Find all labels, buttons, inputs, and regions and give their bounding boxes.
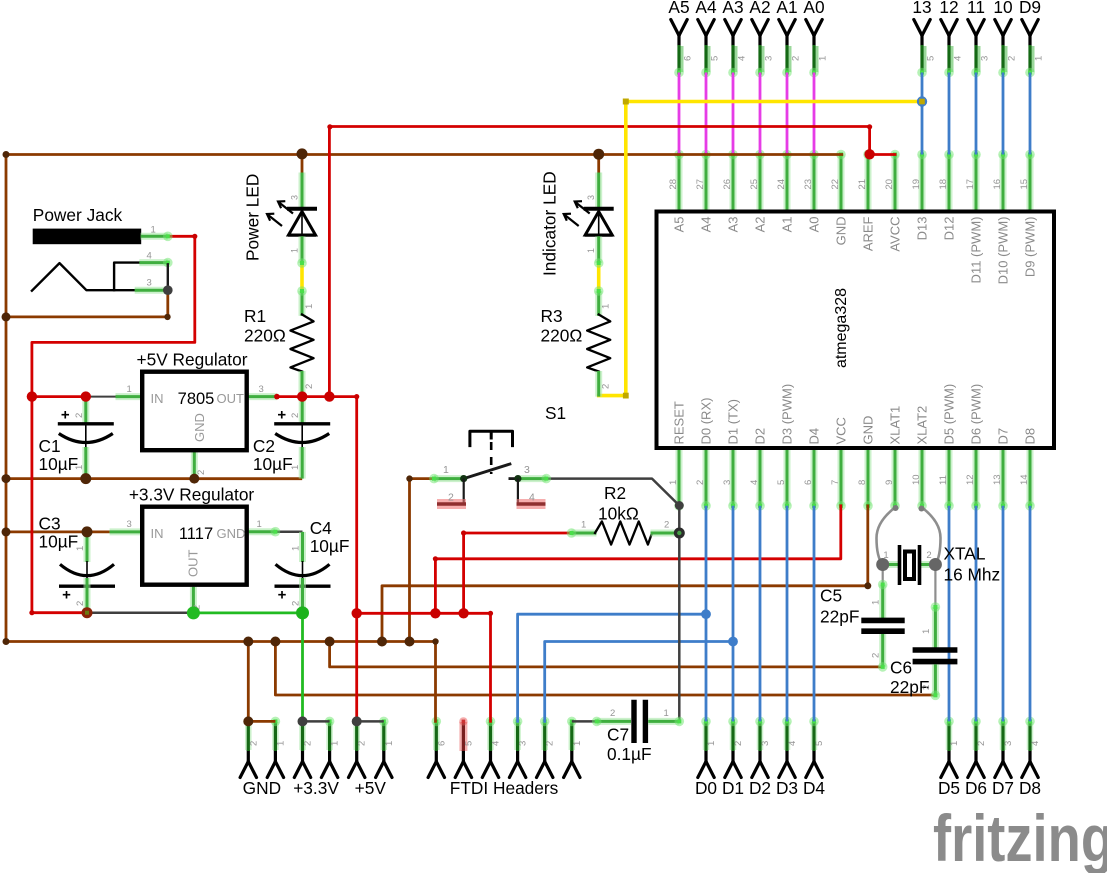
svg-text:10µF: 10µF xyxy=(253,454,293,474)
junction +5V net (31.9,612.7) xyxy=(29,610,34,615)
svg-text:5: 5 xyxy=(776,480,787,485)
svg-text:5: 5 xyxy=(710,56,721,61)
svg-text:D5: D5 xyxy=(938,778,960,798)
svg-text:4: 4 xyxy=(737,56,748,61)
svg-text:D4: D4 xyxy=(807,428,822,445)
svg-text:R2: R2 xyxy=(604,483,626,503)
svg-text:3: 3 xyxy=(127,519,132,530)
svg-text:D12: D12 xyxy=(942,217,957,241)
junction +5V header pin2 xyxy=(352,716,362,726)
pin header D9 (top) xyxy=(1019,0,1045,77)
svg-text:2: 2 xyxy=(290,413,301,418)
svg-text:+: + xyxy=(62,587,71,604)
svg-text:A3: A3 xyxy=(726,217,741,233)
junction GND net (275.4,641.5) xyxy=(270,637,280,647)
svg-text:Power LED: Power LED xyxy=(243,174,263,261)
svg-text:10: 10 xyxy=(911,474,922,485)
junction GND net (248.3,641.5) xyxy=(243,637,253,647)
regulator U3 1117 +3.3V xyxy=(110,485,281,613)
pin header +5V pin2 (bottom) xyxy=(349,717,368,778)
svg-text:2: 2 xyxy=(791,56,802,61)
junction blue net (706,614.2) xyxy=(701,609,711,619)
svg-text:17: 17 xyxy=(965,179,976,190)
svg-text:2: 2 xyxy=(871,653,882,658)
svg-text:C5: C5 xyxy=(820,586,842,606)
svg-text:26: 26 xyxy=(722,179,733,190)
pin header A0 (top) xyxy=(803,0,828,77)
svg-text:D8: D8 xyxy=(1023,428,1038,445)
svg-text:3: 3 xyxy=(1003,741,1014,746)
svg-text:10kΩ: 10kΩ xyxy=(598,504,639,524)
junction GND net (6,154.5) xyxy=(3,151,10,158)
svg-text:D13: D13 xyxy=(915,217,930,241)
svg-text:OUT: OUT xyxy=(217,391,245,406)
junction +5V net (869.6,154.3) xyxy=(864,149,874,159)
svg-text:6: 6 xyxy=(803,480,814,485)
svg-text:+5V Regulator: +5V Regulator xyxy=(137,350,248,370)
pin header D4 (bottom) xyxy=(803,717,825,798)
svg-text:D2: D2 xyxy=(749,778,771,798)
svg-text:220Ω: 220Ω xyxy=(541,326,583,346)
pin header 13 (top) xyxy=(912,0,936,77)
svg-text:IN: IN xyxy=(151,526,164,541)
svg-text:1: 1 xyxy=(706,741,717,746)
pin header A2 (top) xyxy=(749,0,774,77)
svg-text:1: 1 xyxy=(257,519,262,530)
wire brown GND header drop xyxy=(247,642,250,722)
svg-text:D9: D9 xyxy=(1019,0,1041,17)
wire red 7805 OUT +5V net xyxy=(277,397,357,722)
svg-text:5: 5 xyxy=(814,741,825,746)
capacitor C5 22pF xyxy=(820,580,905,672)
junction GND net (6,478.6) xyxy=(2,474,11,483)
svg-text:XLAT2: XLAT2 xyxy=(915,406,930,445)
wire blue D2 D3 D4 verticals xyxy=(759,506,762,722)
wire red +5V branch to FTDI pin4 xyxy=(357,613,491,721)
svg-text:D7: D7 xyxy=(992,778,1014,798)
junction +5V net (329.4,396.6) xyxy=(324,391,334,401)
node R2 pin2 ring xyxy=(674,528,685,539)
svg-text:D0 (RX): D0 (RX) xyxy=(699,398,714,445)
svg-text:2: 2 xyxy=(733,741,744,746)
svg-text:2: 2 xyxy=(610,708,615,719)
svg-text:1: 1 xyxy=(601,304,612,309)
junction GND net (6,531.9) xyxy=(2,527,11,536)
svg-text:13: 13 xyxy=(912,0,931,17)
junction +5V net (435.4,558.8) xyxy=(433,556,438,561)
IC U1 atmega328 xyxy=(657,150,1055,511)
regulator U2 7805 +5V xyxy=(116,350,277,479)
junction GND net (6,316.9) xyxy=(2,312,11,321)
svg-text:0.1µF: 0.1µF xyxy=(607,744,652,764)
junction GND net (382,641.5) xyxy=(377,637,387,647)
svg-text:C7: C7 xyxy=(607,725,629,745)
svg-text:XLAT1: XLAT1 xyxy=(888,406,903,445)
svg-text:1: 1 xyxy=(668,480,679,485)
wire brown switch pin1 to bus xyxy=(410,479,435,642)
junction GND net (87,531.9) xyxy=(82,526,93,537)
svg-text:21: 21 xyxy=(857,179,868,190)
svg-text:A5: A5 xyxy=(668,0,689,17)
wire black +3.3V header jumper xyxy=(303,720,330,723)
svg-text:A4: A4 xyxy=(699,217,714,233)
junction GND net (867.8,585.8) xyxy=(864,582,871,589)
svg-text:2: 2 xyxy=(304,384,315,389)
svg-text:7805: 7805 xyxy=(178,390,215,408)
pin header +3.3V pin2 (bottom) xyxy=(294,717,313,778)
pin header A1 (top) xyxy=(776,0,801,77)
svg-text:Indicator LED: Indicator LED xyxy=(540,171,560,276)
resistor R1 220 xyxy=(299,291,306,316)
capacitor C7 0.1uF xyxy=(592,700,684,764)
svg-text:D2: D2 xyxy=(753,428,768,445)
svg-text:XTAL: XTAL xyxy=(944,544,986,564)
svg-text:A0: A0 xyxy=(803,0,824,17)
svg-text:3: 3 xyxy=(518,741,529,746)
svg-text:1: 1 xyxy=(443,464,449,476)
junction GND net (329.6,641.5) xyxy=(325,637,335,647)
LED D1 Power LED xyxy=(299,173,306,210)
svg-text:D3 (PWM): D3 (PWM) xyxy=(780,384,795,445)
svg-text:A1: A1 xyxy=(776,0,797,17)
wire red VCC pin7 to +5V xyxy=(435,506,840,614)
svg-text:2: 2 xyxy=(921,685,932,690)
pin header GND pin2 (bottom) xyxy=(240,717,259,778)
svg-text:fritzing: fritzing xyxy=(933,801,1107,873)
wire black 1117 GND to C4 xyxy=(275,530,302,533)
junction +5V net (435.4,613.3) xyxy=(430,608,440,618)
svg-text:4: 4 xyxy=(1030,741,1041,746)
svg-text:RESET: RESET xyxy=(672,401,687,444)
capacitor C2 10uF xyxy=(274,397,330,479)
svg-text:10µF: 10µF xyxy=(39,454,79,474)
wire brown bus to C5 pin2 xyxy=(330,642,883,667)
svg-text:GND: GND xyxy=(192,413,207,442)
svg-text:A4: A4 xyxy=(695,0,717,17)
svg-text:12: 12 xyxy=(939,0,958,17)
svg-text:GND: GND xyxy=(834,217,849,246)
switch S1 xyxy=(429,403,566,504)
wire brown C1/C2 ground bus xyxy=(6,477,302,480)
svg-text:3: 3 xyxy=(980,56,991,61)
svg-text:10µF: 10µF xyxy=(310,536,350,556)
svg-text:7: 7 xyxy=(830,480,841,485)
svg-text:+3.3V Regulator: +3.3V Regulator xyxy=(129,485,255,505)
wire red input node to C3 xyxy=(32,397,86,613)
svg-text:2: 2 xyxy=(74,413,85,418)
svg-text:D0: D0 xyxy=(695,778,717,798)
svg-text:9: 9 xyxy=(884,480,895,485)
pin header FTDI pin2 (bottom) xyxy=(537,717,556,778)
wire brown power jack ground xyxy=(6,290,168,317)
svg-text:16: 16 xyxy=(992,179,1003,190)
svg-text:2: 2 xyxy=(448,492,454,504)
svg-text:18: 18 xyxy=(938,179,949,190)
svg-text:D3: D3 xyxy=(776,778,798,798)
svg-text:4: 4 xyxy=(749,480,760,485)
junction GND net (598.7,154.2) xyxy=(593,149,604,160)
svg-text:VCC: VCC xyxy=(834,417,849,444)
svg-text:8: 8 xyxy=(857,480,868,485)
svg-text:13: 13 xyxy=(992,474,1003,485)
svg-text:A5: A5 xyxy=(672,217,687,233)
svg-text:2: 2 xyxy=(976,741,987,746)
svg-text:D8: D8 xyxy=(1019,778,1041,798)
svg-text:4: 4 xyxy=(491,741,502,746)
svg-text:3: 3 xyxy=(147,277,152,288)
svg-text:5: 5 xyxy=(926,56,937,61)
junction +5V net (276.9,396.6) xyxy=(274,394,280,400)
wire blue 13-D9 to IC xyxy=(921,73,924,155)
svg-text:10µF: 10µF xyxy=(39,532,79,552)
svg-text:6: 6 xyxy=(683,56,694,61)
pin header D0 (bottom) xyxy=(695,717,717,798)
svg-text:D5 (PWM): D5 (PWM) xyxy=(942,384,957,445)
svg-text:25: 25 xyxy=(749,179,760,190)
svg-text:D6 (PWM): D6 (PWM) xyxy=(969,384,984,445)
pin header A5 (top) xyxy=(668,0,693,77)
wire red input node to 7805 IN xyxy=(32,395,86,398)
svg-text:2: 2 xyxy=(1007,56,1018,61)
pin header FTDI pin5 (bottom) xyxy=(455,717,474,777)
svg-text:3: 3 xyxy=(722,480,733,485)
svg-text:1: 1 xyxy=(384,741,395,746)
svg-text:3: 3 xyxy=(760,741,771,746)
svg-text:19: 19 xyxy=(911,179,922,190)
svg-text:+5V: +5V xyxy=(355,778,387,798)
capacitor C3 10uF xyxy=(59,532,115,613)
capacitor C6 22pF xyxy=(890,602,957,700)
svg-text:FTDI Headers: FTDI Headers xyxy=(450,778,559,798)
svg-text:16 Mhz: 16 Mhz xyxy=(944,565,1001,585)
pin header D6 (bottom) xyxy=(965,717,987,798)
svg-text:2: 2 xyxy=(926,550,931,561)
svg-text:3: 3 xyxy=(524,464,530,476)
svg-text:D4: D4 xyxy=(803,778,825,798)
svg-text:5: 5 xyxy=(463,741,474,746)
svg-text:220Ω: 220Ω xyxy=(244,326,286,346)
node reset diagonal dot xyxy=(675,501,684,510)
svg-text:28: 28 xyxy=(668,179,679,190)
svg-text:C2: C2 xyxy=(253,436,275,456)
junction GND net (409.5,641.5) xyxy=(405,637,415,647)
wire blue D0 vertical xyxy=(705,506,708,722)
junction +3.3V net at 1117 OUT xyxy=(187,606,200,619)
junction GND net (167.5,316.9) xyxy=(164,314,170,320)
svg-text:1: 1 xyxy=(275,741,286,746)
wire red R2 pin1 to +5V xyxy=(464,533,572,613)
svg-text:2: 2 xyxy=(601,384,612,389)
svg-text:15: 15 xyxy=(1019,179,1030,190)
svg-text:GND: GND xyxy=(861,416,876,445)
wire blue D1 to FTDI pin2 xyxy=(545,642,733,722)
pin header FTDI pin1 (bottom) xyxy=(564,717,583,778)
svg-text:11: 11 xyxy=(938,475,949,485)
junction GND net (302,153.9) xyxy=(297,148,308,159)
wire green +3.3V net xyxy=(193,613,302,722)
resistor R2 10k xyxy=(567,483,677,545)
svg-text:10: 10 xyxy=(993,0,1012,17)
svg-text:2: 2 xyxy=(291,601,302,606)
svg-text:6: 6 xyxy=(436,741,447,746)
svg-text:1: 1 xyxy=(883,550,888,561)
svg-text:2: 2 xyxy=(248,741,259,746)
svg-text:1117: 1117 xyxy=(179,525,213,543)
pin header FTDI pin4 (bottom) xyxy=(482,717,501,778)
svg-text:3: 3 xyxy=(259,384,264,395)
junction +5V net (869.6,126.8) xyxy=(867,124,872,129)
junction GND net (194.3,478.6) xyxy=(189,474,199,484)
LED D2 Indicator LED xyxy=(595,173,602,210)
svg-text:1: 1 xyxy=(572,741,583,746)
wire red power jack pin1 to regulator input xyxy=(32,236,195,396)
pin header FTDI pin3 (bottom) xyxy=(509,717,528,778)
svg-text:D6: D6 xyxy=(965,778,987,798)
junction +5V net (356.7,613.3) xyxy=(352,608,362,618)
svg-text:24: 24 xyxy=(776,179,787,190)
svg-text:22pF: 22pF xyxy=(820,607,859,627)
svg-text:AREF: AREF xyxy=(861,216,876,251)
wire yellow power LED to R1 xyxy=(300,263,304,291)
wire yellow indicator LED to R3 xyxy=(597,263,601,291)
junction +5V net (463.6,613.3) xyxy=(458,608,468,618)
svg-text:1: 1 xyxy=(921,629,932,634)
wire brown 1117 IN bus xyxy=(6,531,110,534)
svg-text:1: 1 xyxy=(290,248,300,253)
junction +5V net (490.5,613.3) xyxy=(488,611,493,616)
svg-text:14: 14 xyxy=(1019,474,1030,485)
pin header +5V pin1 (bottom) xyxy=(376,717,395,778)
svg-text:1: 1 xyxy=(818,56,829,61)
svg-text:2: 2 xyxy=(75,601,86,606)
svg-text:4: 4 xyxy=(953,56,964,61)
svg-text:3: 3 xyxy=(764,56,775,61)
junction +5V net (356.7,396.6) xyxy=(354,394,359,399)
pin header A4 (top) xyxy=(695,0,720,77)
junction +5V net (329.9,126.8) xyxy=(327,124,332,129)
wire magenta A5-A0 to IC xyxy=(678,73,681,155)
svg-text:1: 1 xyxy=(291,546,302,551)
wire brown indicator LED stub xyxy=(597,155,600,173)
pin header GND pin1 (bottom) xyxy=(267,717,286,778)
svg-text:C4: C4 xyxy=(310,518,332,538)
wire blue D0 to FTDI pin3 xyxy=(518,614,706,721)
svg-text:1: 1 xyxy=(151,225,156,236)
svg-text:IN: IN xyxy=(151,391,164,406)
wire blue D1 vertical xyxy=(732,506,735,722)
svg-text:A2: A2 xyxy=(753,217,768,233)
svg-text:OUT: OUT xyxy=(186,550,201,578)
node C3 pin2 ring xyxy=(82,607,93,618)
svg-text:22: 22 xyxy=(830,179,841,190)
svg-text:Power Jack: Power Jack xyxy=(33,205,123,225)
svg-text:3: 3 xyxy=(586,195,596,200)
pin header D5 (bottom) xyxy=(938,717,960,798)
pin header D1 (bottom) xyxy=(722,717,744,798)
svg-text:GND: GND xyxy=(243,778,281,798)
pin header A3 (top) xyxy=(722,0,747,77)
wire black C1 node to 7805 IN stub xyxy=(86,396,116,398)
wire black FTDI pin1 to C7 xyxy=(572,720,597,723)
wire black C3 to 1117 OUT xyxy=(86,611,193,614)
svg-text:1: 1 xyxy=(304,304,315,309)
resistor R3 220 xyxy=(595,291,602,316)
svg-text:A3: A3 xyxy=(722,0,743,17)
svg-text:A2: A2 xyxy=(749,0,770,17)
svg-text:C1: C1 xyxy=(39,436,61,456)
crystal XTAL 16 Mhz xyxy=(876,505,1000,607)
pin header D7 (bottom) xyxy=(992,717,1014,798)
svg-text:4: 4 xyxy=(787,741,798,746)
junction +5V net (302.2,396.6) xyxy=(297,391,307,401)
svg-text:4: 4 xyxy=(529,492,535,504)
svg-text:12: 12 xyxy=(965,474,976,485)
svg-text:4: 4 xyxy=(147,251,152,262)
pin header +3.3V pin1 (bottom) xyxy=(321,717,340,778)
wire black switch pin3 to RESET net xyxy=(546,479,679,722)
connector J1 Power Jack xyxy=(32,205,173,295)
svg-text:11: 11 xyxy=(967,0,985,17)
svg-text:1: 1 xyxy=(586,248,596,253)
wire blue D5-D8 verticals xyxy=(948,506,951,722)
junction GND net (85.8,478.6) xyxy=(80,473,91,484)
svg-text:+3.3V: +3.3V xyxy=(293,778,339,798)
junction blue net (733,641.5) xyxy=(728,637,738,647)
svg-text:27: 27 xyxy=(695,179,706,190)
svg-text:1: 1 xyxy=(127,384,132,395)
capacitor C4 10uF xyxy=(275,532,331,613)
svg-text:D10 (PWM): D10 (PWM) xyxy=(996,217,1011,285)
junction GND net (248.3,721.4) xyxy=(243,716,253,726)
wire black +5V header jumper xyxy=(357,720,384,723)
svg-text:GND: GND xyxy=(217,526,246,541)
svg-text:23: 23 xyxy=(803,179,814,190)
svg-text:A0: A0 xyxy=(807,217,822,233)
junction GND net (6,641.5) xyxy=(3,638,10,645)
pin header FTDI pin6 (bottom) xyxy=(428,717,447,778)
svg-text:2: 2 xyxy=(695,480,706,485)
svg-text:1: 1 xyxy=(664,708,669,719)
junction blue net (922,101.5) xyxy=(917,96,927,106)
capacitor C1 10uF xyxy=(58,397,114,479)
svg-text:20: 20 xyxy=(884,179,895,190)
svg-text:AVCC: AVCC xyxy=(888,217,903,252)
svg-text:1: 1 xyxy=(1034,56,1045,61)
svg-text:1: 1 xyxy=(581,520,586,531)
junction +5V net (85.8,396.6) xyxy=(81,391,91,401)
pin header D8 (bottom) xyxy=(1019,717,1041,798)
svg-text:3: 3 xyxy=(290,195,300,200)
svg-text:2: 2 xyxy=(303,741,314,746)
svg-text:A1: A1 xyxy=(780,217,795,233)
svg-text:1: 1 xyxy=(330,741,341,746)
svg-text:+: + xyxy=(61,407,70,424)
svg-text:R1: R1 xyxy=(244,306,266,326)
wire brown bus to C6 pin2 xyxy=(275,642,935,696)
junction +3.3V net at C4 pin2 xyxy=(296,606,309,619)
wire red +5V to AREF/AVCC top xyxy=(329,127,895,397)
pin header 11 (top) xyxy=(967,0,990,77)
junction +5V net (463.6,533) xyxy=(461,530,466,535)
wire yellow R3 to D13 node xyxy=(599,102,922,396)
svg-text:C3: C3 xyxy=(39,514,61,534)
wire brown GND top bus xyxy=(6,155,842,722)
pin header D3 (bottom) xyxy=(776,717,798,798)
svg-text:2: 2 xyxy=(664,520,669,531)
svg-text:+: + xyxy=(278,587,287,604)
wire brown power LED stub xyxy=(301,155,304,173)
svg-text:D9 (PWM): D9 (PWM) xyxy=(1023,217,1038,278)
